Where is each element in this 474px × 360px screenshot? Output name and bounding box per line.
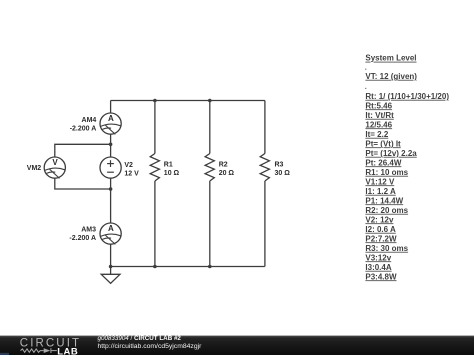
svg-text:AM3: AM3 xyxy=(81,226,96,233)
svg-text:VT: 12 (given): VT: 12 (given) xyxy=(365,72,417,81)
svg-text:R1: R1 xyxy=(164,162,173,169)
svg-text:LAB: LAB xyxy=(57,347,78,356)
svg-text:I1: 1.2 A: I1: 1.2 A xyxy=(365,187,396,196)
svg-text:V2: 12v: V2: 12v xyxy=(365,215,394,224)
svg-text:Pt: 26.4W: Pt: 26.4W xyxy=(365,158,401,167)
svg-text:VM2: VM2 xyxy=(27,165,42,172)
svg-text:System Level: System Level xyxy=(365,54,416,63)
svg-text:V3:12v: V3:12v xyxy=(365,253,391,262)
svg-text:A: A xyxy=(108,224,114,233)
svg-text:R2: R2 xyxy=(219,162,228,169)
svg-text:V1:12 V: V1:12 V xyxy=(365,177,395,186)
svg-text:Rt: 1/ (1/10+1/30+1/20): Rt: 1/ (1/10+1/30+1/20) xyxy=(365,92,449,101)
svg-text:R3: 30 oms: R3: 30 oms xyxy=(365,244,408,253)
svg-text:P3:4.8W: P3:4.8W xyxy=(365,272,397,281)
svg-text:R3: R3 xyxy=(275,162,284,169)
svg-text:-2.200 A: -2.200 A xyxy=(70,125,97,132)
svg-text:10 Ω: 10 Ω xyxy=(164,170,180,177)
svg-text:12 V: 12 V xyxy=(124,170,139,177)
svg-text:20 Ω: 20 Ω xyxy=(219,170,235,177)
svg-text:R2: 20 oms: R2: 20 oms xyxy=(365,206,408,215)
svg-text:Rt:5.46: Rt:5.46 xyxy=(365,101,392,110)
svg-text:It= 2.2: It= 2.2 xyxy=(365,130,388,139)
svg-text:AM4: AM4 xyxy=(82,117,97,124)
svg-text:Pt= (12v) 2.2a: Pt= (12v) 2.2a xyxy=(365,149,417,158)
svg-text:http://circuitlab.com/cd5yjcm8: http://circuitlab.com/cd5yjcm84zgjr xyxy=(98,343,203,350)
svg-text:I2: 0.6 A: I2: 0.6 A xyxy=(365,225,396,234)
svg-text:g00833904 / CIRCUT LAB #2: g00833904 / CIRCUT LAB #2 xyxy=(98,335,182,342)
svg-text:R1: 10 oms: R1: 10 oms xyxy=(365,168,408,177)
svg-text:Pt= (Vt) It: Pt= (Vt) It xyxy=(365,139,401,148)
svg-text:-2.200 A: -2.200 A xyxy=(69,235,96,242)
svg-text:P2:7.2W: P2:7.2W xyxy=(365,234,397,243)
svg-text:A: A xyxy=(108,114,114,123)
svg-text:12/5.46: 12/5.46 xyxy=(365,120,392,129)
svg-text:V2: V2 xyxy=(124,162,133,169)
svg-text:V: V xyxy=(52,158,58,167)
svg-text:P1: 14.4W: P1: 14.4W xyxy=(365,196,403,205)
svg-text:It: Vt/Rt: It: Vt/Rt xyxy=(365,111,394,120)
svg-text:30 Ω: 30 Ω xyxy=(275,170,291,177)
svg-text:I3:0.4A: I3:0.4A xyxy=(365,263,391,272)
